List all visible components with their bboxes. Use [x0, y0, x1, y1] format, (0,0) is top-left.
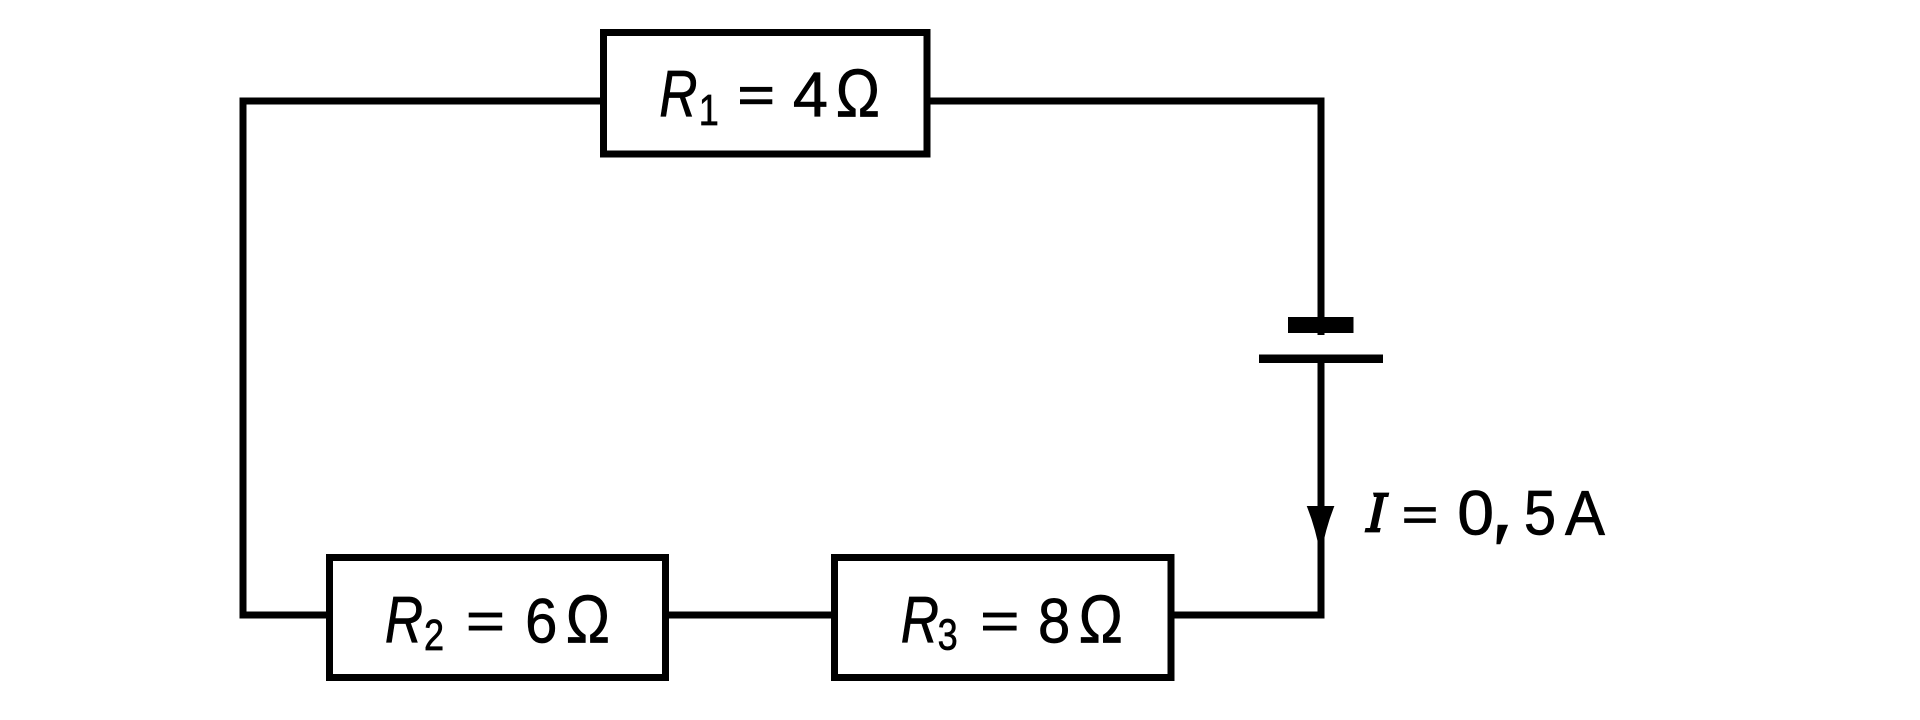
- current direction arrow on right wire: [1307, 506, 1335, 556]
- wire right lower (from battery positive plate to bottom wire): [1318, 363, 1325, 619]
- wire right upper (from top wire to battery negative plate): [1318, 98, 1325, 336]
- svg-text:Ω: Ω: [836, 57, 880, 131]
- svg-text:1: 1: [699, 86, 719, 135]
- svg-text:3: 3: [938, 610, 958, 659]
- battery B1 negative plate (short thick bar): [1288, 317, 1354, 333]
- value label I = 0,5 A (current): [1365, 477, 1605, 549]
- svg-text:Ω: Ω: [566, 583, 610, 657]
- value label R2 = 6 Ohm: [385, 583, 610, 660]
- svg-text:0: 0: [1457, 478, 1494, 548]
- svg-text:R: R: [385, 583, 423, 657]
- svg-text:8: 8: [1038, 585, 1070, 656]
- svg-text:R: R: [901, 583, 939, 657]
- resistor R3 (box symbol): [835, 558, 1172, 678]
- resistor R2 (box symbol): [330, 558, 666, 678]
- svg-text:Ω: Ω: [1079, 583, 1123, 657]
- svg-text:4: 4: [793, 61, 828, 131]
- battery B1 positive plate (long thin bar): [1259, 355, 1383, 364]
- resistor R1 (box symbol): [604, 33, 928, 155]
- svg-text:R: R: [659, 57, 697, 131]
- svg-text:6: 6: [525, 585, 557, 656]
- wire left (from top wire down to bottom wire): [240, 98, 247, 619]
- battery B1: [1259, 317, 1383, 363]
- svg-text:5: 5: [1524, 477, 1556, 548]
- wire bottom (connecting R2, R3 and right branch): [240, 612, 1325, 619]
- svg-text:2: 2: [424, 611, 444, 660]
- svg-text:A: A: [1565, 478, 1605, 549]
- wire top (node between R1 terminals and battery): [240, 98, 1325, 105]
- value label R1 = 4 Ohm: [659, 57, 880, 135]
- value label R3 = 8 Ohm: [901, 583, 1123, 659]
